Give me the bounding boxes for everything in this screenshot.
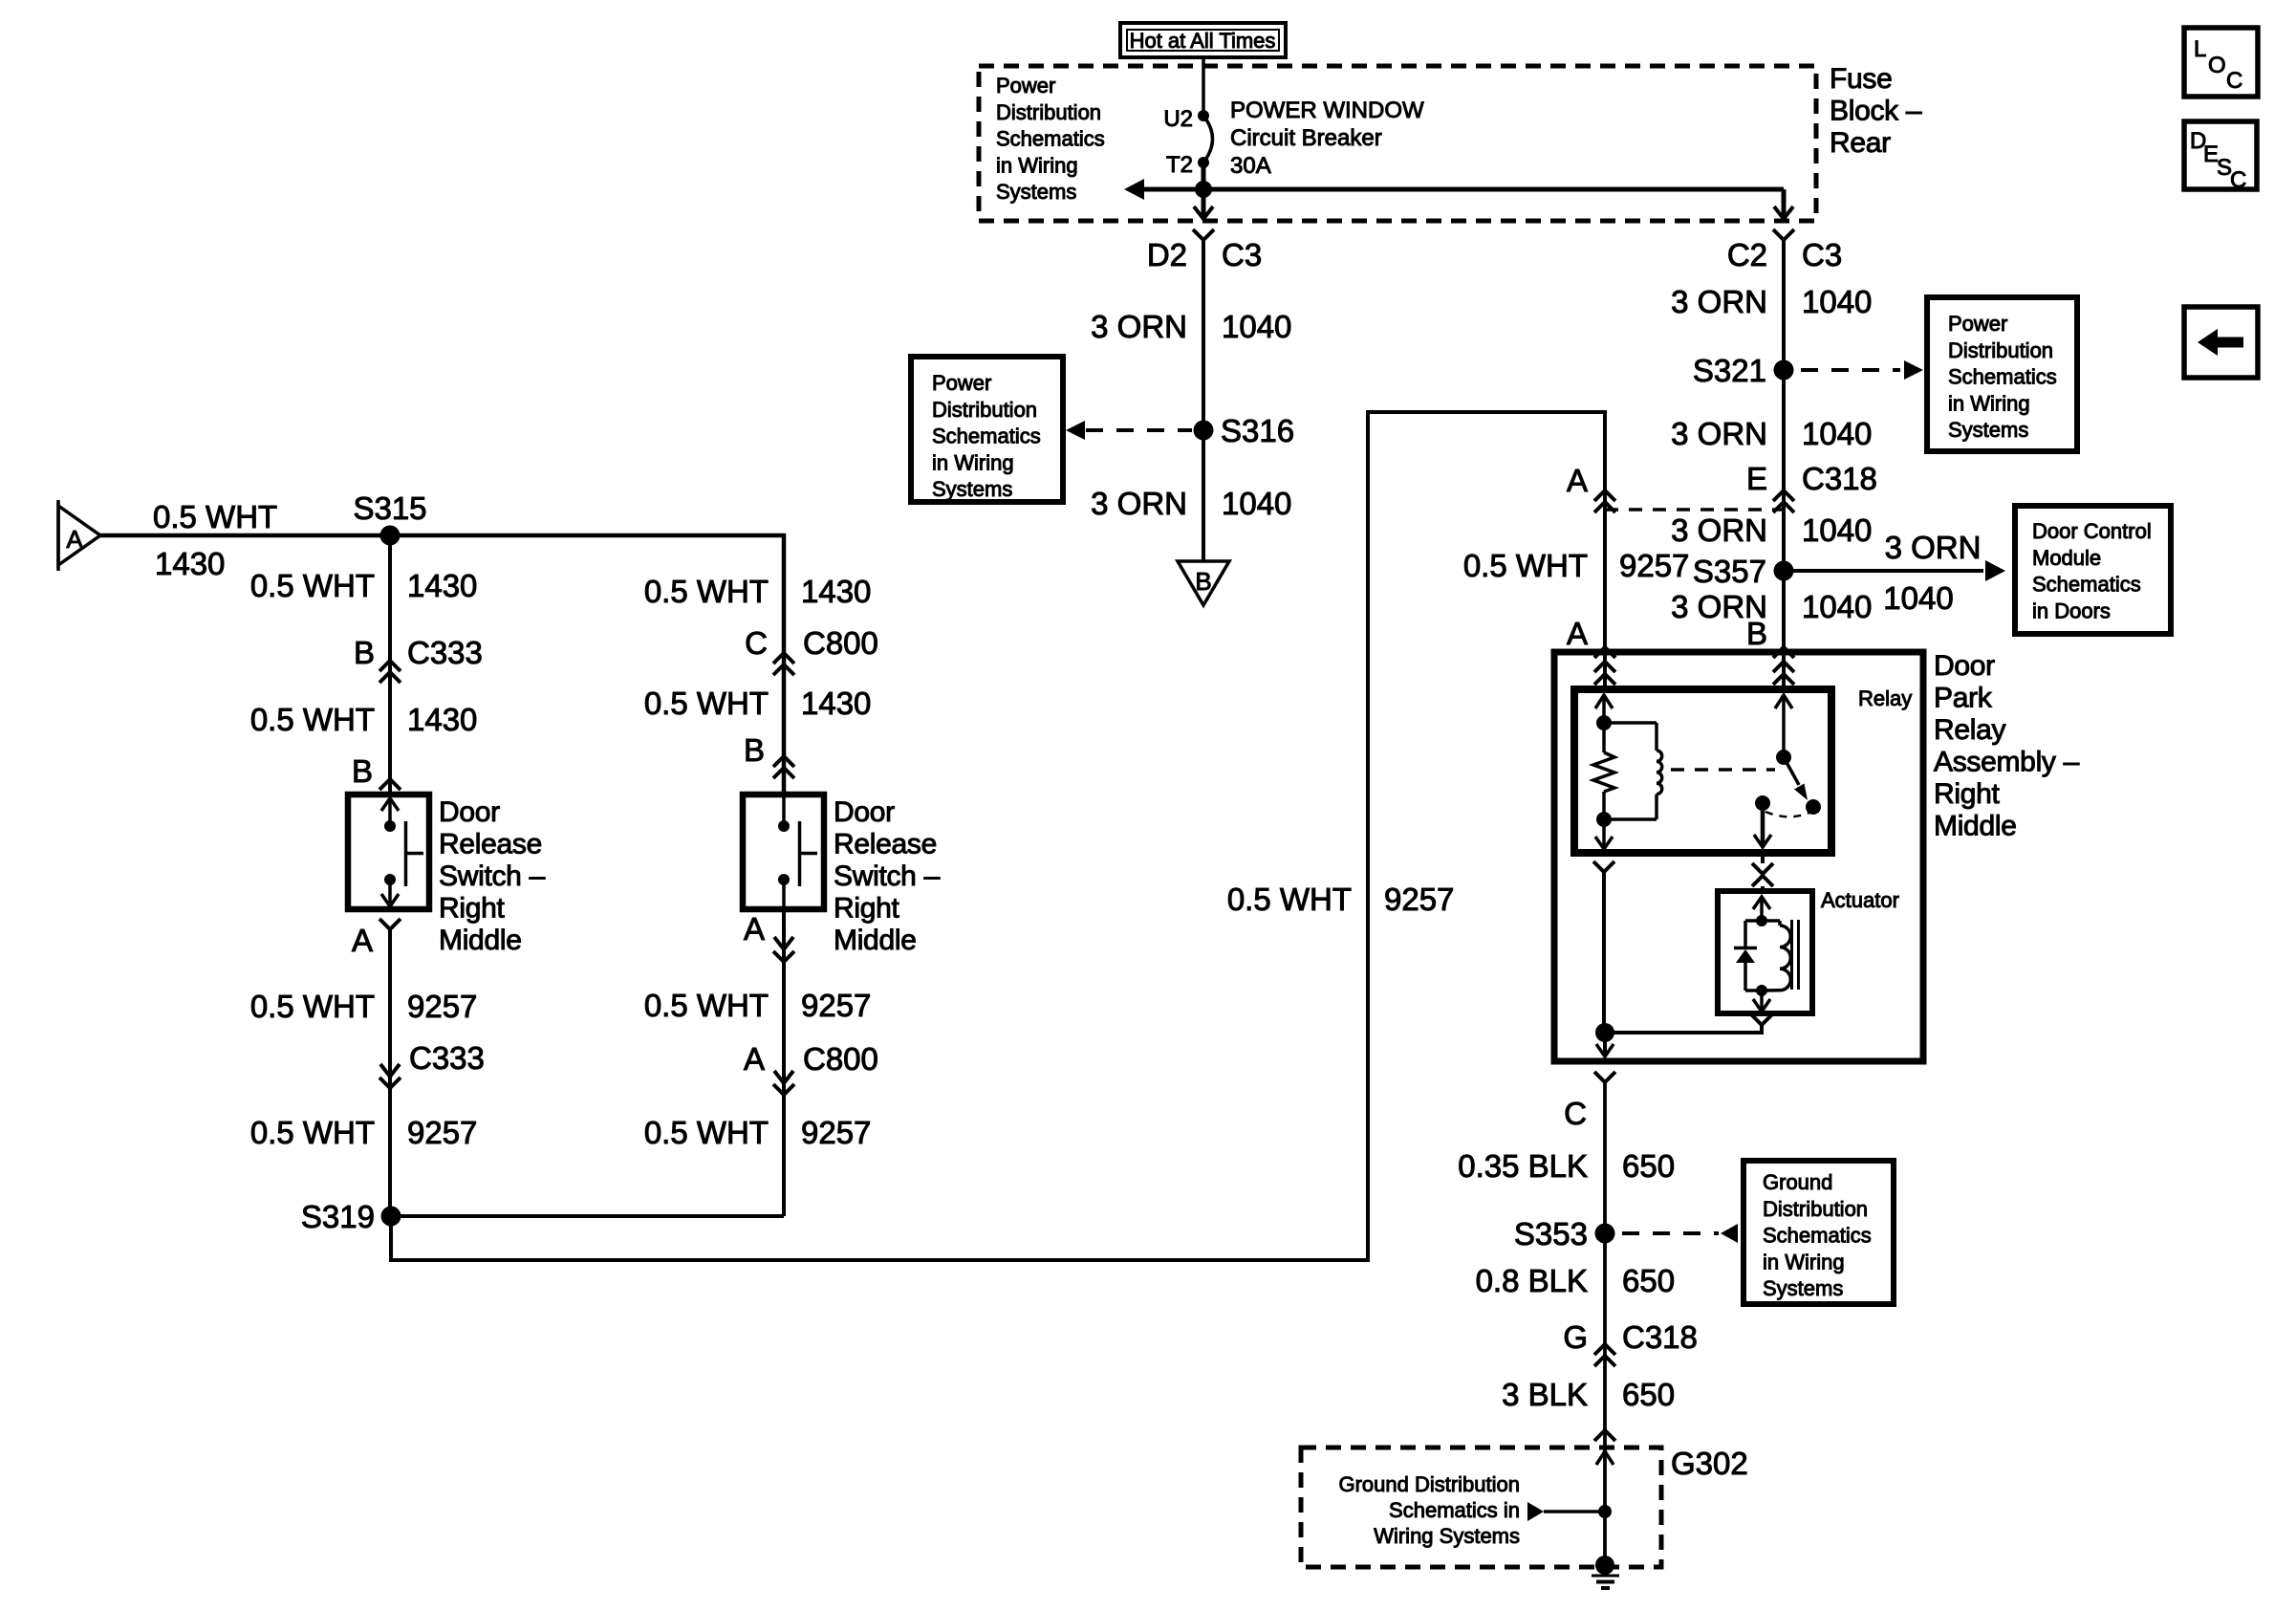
pin label E | C318	[1746, 461, 1877, 496]
svg-text:1040: 1040	[1222, 309, 1291, 344]
actuator core bars	[1792, 920, 1799, 990]
label G302	[1671, 1446, 1748, 1481]
switch pin A arrow+fork (right switch bottom)	[744, 909, 794, 1216]
fuse block label "Fuse Block - Rear"	[1830, 63, 1922, 159]
reference box: Power Distribution Schematics in Wiring Systems (right)	[1927, 297, 2077, 451]
relay dashed actuation link	[1671, 768, 1775, 772]
svg-text:3 ORN: 3 ORN	[1671, 284, 1767, 319]
splice S319	[301, 1199, 401, 1234]
svg-text:G: G	[1563, 1319, 1588, 1355]
label 0.5 WHT | 9257 (riser)	[1227, 882, 1455, 917]
connector chevron at assembly pin A	[1594, 647, 1615, 658]
reference box: Power Distribution Schematics in Wiring Systems (left)	[911, 357, 1063, 502]
off-page connector triangle B	[1178, 561, 1229, 605]
svg-text:POWER WINDOWCircuit Breaker30A: POWER WINDOWCircuit Breaker30A	[1230, 98, 1424, 179]
svg-text:3 ORN: 3 ORN	[1091, 486, 1187, 521]
label 3 ORN | 1040	[1671, 284, 1872, 319]
relay switch common contact	[1755, 795, 1770, 811]
label 3 ORN | 1040 (below S357)	[1671, 589, 1872, 624]
svg-text:9257: 9257	[801, 1115, 871, 1150]
svg-text:0.35 BLK: 0.35 BLK	[1458, 1148, 1588, 1184]
pin label B (relay assembly)	[1746, 616, 1767, 651]
splice S316 with dashed reference arrow	[1066, 413, 1294, 448]
relay switch arm with arrowhead	[1784, 757, 1808, 800]
svg-text:FuseBlock –Rear: FuseBlock –Rear	[1830, 63, 1922, 159]
icon box back-arrow	[2184, 307, 2258, 378]
svg-text:0.5 WHT: 0.5 WHT	[153, 499, 277, 534]
svg-text:B: B	[744, 732, 765, 768]
svg-text:C3: C3	[1802, 237, 1842, 272]
icon box DESC	[2184, 121, 2257, 193]
wire: 0.5 WHT 1430 feed from A through S315 turning down right branch	[100, 535, 784, 795]
svg-text:Actuator: Actuator	[1821, 888, 1899, 912]
svg-text:9257: 9257	[1619, 548, 1689, 583]
ground wire into G302 with arrow	[1596, 1451, 1614, 1465]
pin label A (C318 pin A)	[1567, 463, 1588, 498]
off-page connector triangle A (feed)	[58, 500, 100, 571]
svg-text:DoorParkRelayAssembly –RightMi: DoorParkRelayAssembly –RightMiddle	[1934, 650, 2080, 842]
wire: 3 ORN 1040 from S316 to page connector B	[1202, 430, 1205, 561]
splice S357 with arrow to Door Control Module	[1693, 530, 2005, 616]
svg-text:S357: S357	[1693, 554, 1766, 589]
svg-text:1040: 1040	[1802, 512, 1872, 548]
svg-text:Ground DistributionSchematics: Ground DistributionSchematics inWiring S…	[1338, 1472, 1520, 1548]
ground lead chevron above G302	[1594, 1430, 1615, 1441]
reference box: Door Control Module Schematics in Doors	[2015, 506, 2171, 634]
label 3 ORN | 1040	[1671, 416, 1872, 451]
pin label C2 | C3	[1727, 237, 1842, 272]
circuit breaker U2/T2 POWER WINDOW 30A	[1163, 98, 1424, 179]
assembly pin C fork below box	[1564, 1072, 1615, 1565]
relay switch pivot	[1776, 750, 1791, 765]
label 0.8 BLK | 650	[1476, 1263, 1675, 1298]
svg-text:A: A	[1567, 463, 1588, 498]
label: Door Park Relay Assembly - Right Middle	[1934, 650, 2080, 842]
wire: right branch joins S319 bus	[391, 1214, 784, 1218]
svg-text:C3: C3	[1222, 237, 1262, 272]
svg-text:1430: 1430	[801, 574, 871, 609]
connector C318 pin E double chevron	[1773, 490, 1794, 512]
svg-text:A: A	[1567, 616, 1588, 651]
svg-text:C: C	[1564, 1096, 1587, 1131]
svg-text:9257: 9257	[407, 1115, 477, 1150]
svg-text:C800: C800	[803, 1041, 878, 1077]
junction: G302 tap	[1598, 1505, 1612, 1518]
svg-text:GroundDistributionSchematicsin: GroundDistributionSchematicsin WiringSys…	[1763, 1170, 1872, 1300]
relay coil output arrow to box edge	[1595, 819, 1613, 849]
connector C800 pin C double chevron	[773, 653, 794, 675]
actuator diode	[1734, 921, 1762, 991]
svg-text:C318: C318	[1622, 1319, 1698, 1355]
wire: breaker output bus inside fuse block	[1142, 163, 1784, 189]
pin label C333 (bottom)	[409, 1040, 485, 1076]
connector C333 exit arrow+chevron	[379, 1064, 401, 1088]
switch pin chevrons (right switch top)	[773, 756, 794, 778]
label 0.5 WHT | 1430	[250, 702, 478, 737]
svg-text:B: B	[1746, 616, 1767, 651]
pin label A (relay assembly)	[1567, 616, 1588, 651]
svg-text:0.5 WHT: 0.5 WHT	[644, 686, 769, 721]
svg-text:9257: 9257	[407, 989, 477, 1024]
pin label B (left switch)	[352, 753, 373, 789]
svg-text:C2: C2	[1727, 237, 1767, 272]
svg-text:0.5 WHT: 0.5 WHT	[250, 702, 375, 737]
reference note: Ground Distribution Schematics in Wiring Systems (inside G302)	[1338, 1472, 1520, 1548]
pin label A | C800 (bottom)	[744, 1041, 878, 1077]
actuator node bottom	[1756, 985, 1767, 996]
svg-text:0.5 WHT: 0.5 WHT	[644, 1115, 769, 1150]
svg-text:C: C	[745, 625, 768, 661]
actuator node top	[1756, 915, 1767, 926]
relay resistor	[1593, 723, 1614, 819]
assembly internal connector A (double chevron)	[1594, 652, 1615, 689]
svg-text:650: 650	[1622, 1377, 1675, 1412]
svg-text:S316: S316	[1221, 413, 1294, 448]
svg-text:PowerDistributionSchematicsin: PowerDistributionSchematicsin WiringSyst…	[1948, 312, 2057, 442]
actuator feed arrow	[1753, 897, 1770, 921]
svg-text:3 ORN: 3 ORN	[1671, 416, 1767, 451]
wire: D2 drop leaving fuse block	[1194, 189, 1213, 219]
door park relay assembly: outer box	[1554, 652, 1923, 1061]
svg-text:0.5 WHT: 0.5 WHT	[644, 988, 769, 1023]
svg-text:D2: D2	[1147, 237, 1187, 272]
svg-text:Relay: Relay	[1858, 686, 1912, 710]
svg-text:0.8 BLK: 0.8 BLK	[1476, 1263, 1588, 1298]
in-line connector below relay (X fork)	[1752, 853, 1773, 891]
svg-text:U2: U2	[1163, 106, 1193, 132]
label: Door Release Switch - Right Middle (left)	[439, 796, 546, 956]
svg-text:1040: 1040	[1802, 284, 1872, 319]
svg-text:3 BLK: 3 BLK	[1502, 1377, 1588, 1412]
ground G302 dashed box	[1301, 1448, 1661, 1567]
wire: left branch 0.5 WHT 1430 down to switch	[388, 535, 392, 795]
svg-text:1040: 1040	[1883, 580, 1953, 616]
svg-text:DoorReleaseSwitch –RightMiddle: DoorReleaseSwitch –RightMiddle	[834, 796, 941, 956]
relay box	[1574, 689, 1831, 853]
wire: assembly ground exit with arrow	[1596, 1033, 1614, 1056]
relay switch contact (normally open)	[1806, 799, 1821, 815]
label 3 ORN | 1040	[1091, 486, 1291, 521]
relay switch dashed throw arc	[1765, 812, 1809, 816]
svg-text:C333: C333	[407, 635, 483, 670]
svg-text:1430: 1430	[407, 568, 477, 603]
svg-text:A: A	[352, 923, 373, 958]
svg-text:Door ControlModuleSchematicsin: Door ControlModuleSchematicsin Doors	[2032, 519, 2152, 622]
connector C333 pin B double chevron	[379, 661, 401, 683]
pin label D2 | C3	[1147, 237, 1262, 272]
arrow: bus continues left (power distribution)	[1124, 179, 1144, 200]
label 0.5 WHT | 1430	[250, 568, 478, 603]
reference arrow inside G302	[1527, 1502, 1605, 1521]
wire: 3 ORN 1040 from C2 down through S321, C318 pin E, S357 to assembly pin B	[1782, 240, 1786, 652]
pin label G | C318	[1563, 1319, 1698, 1355]
svg-text:Hot at All Times: Hot at All Times	[1130, 29, 1276, 53]
splice S315	[353, 490, 426, 546]
relay node: coil top	[1596, 715, 1612, 730]
connector C318 pin A double chevron	[1594, 490, 1615, 512]
label 0.35 BLK | 650	[1458, 1148, 1675, 1184]
door release switch left: box	[348, 795, 429, 909]
svg-text:0.5 WHT: 0.5 WHT	[250, 1115, 375, 1150]
svg-text:0.5 WHT: 0.5 WHT	[1227, 882, 1352, 917]
label 3 ORN | 1040	[1091, 309, 1291, 344]
actuator output fork and link to ground bus	[1605, 1014, 1772, 1033]
wire: hot feed from banner into fuse block	[1202, 57, 1205, 115]
wire: 3 ORN 1040 from D2 to S316	[1202, 270, 1205, 430]
label 0.5 WHT | 9257 (right branch to S319)	[644, 1115, 872, 1150]
actuator box	[1718, 891, 1812, 1013]
connector C318 pin G double chevron	[1594, 1344, 1615, 1366]
connector C800 exit arrow+chevron	[773, 1071, 794, 1095]
wire: relay output A-side inside assembly	[1593, 861, 1614, 1033]
label 0.5 WHT / 1430 on feed	[153, 499, 277, 581]
svg-text:S353: S353	[1514, 1216, 1588, 1252]
label 0.5 WHT | 1430 (below C800)	[644, 686, 872, 721]
label 3 BLK | 650	[1502, 1377, 1675, 1412]
label 0.5 WHT | 9257 (to S319)	[250, 1115, 478, 1150]
reference note: Power Distribution Schematics in Wiring Systems (inside fuse block)	[996, 74, 1105, 204]
relay switch: input wire with arrow	[1775, 695, 1792, 757]
assembly internal connector B (double chevron)	[1773, 652, 1794, 689]
dashed connector tie line C318	[1605, 508, 1784, 512]
svg-text:0.5 WHT: 0.5 WHT	[1463, 548, 1588, 583]
svg-text:L: L	[2194, 36, 2206, 62]
wire: C2 drop leaving fuse block	[1774, 189, 1793, 219]
svg-text:B: B	[354, 635, 375, 670]
svg-text:1430: 1430	[155, 546, 225, 581]
connector chevron at assembly pin B	[1773, 647, 1794, 658]
label 3 ORN | 1040 (above S357)	[1671, 512, 1872, 548]
label: Relay	[1858, 686, 1912, 710]
switch pin A fork (left switch bottom)	[352, 919, 401, 1216]
relay coil (inductor)	[1604, 723, 1662, 819]
svg-text:1040: 1040	[1802, 589, 1872, 624]
power feed banner "Hot at All Times"	[1120, 23, 1286, 57]
label: Actuator	[1821, 888, 1899, 912]
svg-text:1430: 1430	[801, 686, 871, 721]
svg-text:PowerDistributionSchematicsin: PowerDistributionSchematicsin WiringSyst…	[932, 371, 1041, 501]
pin label C | C800	[745, 625, 878, 661]
pin label B | C333	[354, 635, 483, 670]
svg-text:PowerDistributionSchematicsin: PowerDistributionSchematicsin WiringSyst…	[996, 74, 1105, 204]
svg-text:0.5 WHT: 0.5 WHT	[250, 568, 375, 603]
reference box: Ground Distribution Schematics in Wiring Systems	[1744, 1161, 1894, 1304]
label 0.5 WHT | 9257	[250, 989, 478, 1024]
svg-text:650: 650	[1622, 1263, 1675, 1298]
junction: breaker output node	[1195, 181, 1212, 198]
fuse block dashed box	[979, 66, 1816, 221]
svg-text:G302: G302	[1671, 1446, 1748, 1481]
label 0.5 WHT | 1430 (right branch)	[644, 574, 872, 609]
svg-text:C333: C333	[409, 1040, 485, 1076]
svg-text:1430: 1430	[407, 702, 477, 737]
label: Door Release Switch - Right Middle (right)	[834, 796, 941, 956]
svg-text:O: O	[2208, 53, 2226, 78]
svg-text:S319: S319	[301, 1199, 375, 1234]
actuator output arrow to box edge	[1753, 991, 1770, 1012]
label 0.5 WHT | 9257 (above assembly)	[1463, 548, 1690, 583]
junction: assembly ground node	[1595, 1023, 1614, 1042]
svg-text:0.5 WHT: 0.5 WHT	[644, 574, 769, 609]
door release switch right: box	[743, 795, 824, 909]
relay node: coil bottom	[1596, 812, 1612, 827]
icon box LOC	[2184, 28, 2258, 97]
svg-text:C800: C800	[803, 625, 878, 661]
svg-text:9257: 9257	[801, 988, 871, 1023]
pin label B (right switch)	[744, 732, 765, 768]
svg-text:A: A	[744, 911, 765, 947]
svg-text:C: C	[2230, 167, 2246, 193]
svg-text:A: A	[744, 1041, 765, 1077]
ground symbol G302	[1592, 1556, 1619, 1588]
connector: fuse block D2 exit fork	[1193, 229, 1214, 270]
svg-text:1040: 1040	[1222, 486, 1291, 521]
relay coil feed wire with arrow	[1595, 695, 1613, 723]
wire: S319 long run 0.5 WHT 9257 up the riser to assembly pin A	[391, 412, 1605, 1260]
svg-text:3 ORN: 3 ORN	[1885, 530, 1982, 565]
splice S353 with dashed reference arrow	[1514, 1216, 1738, 1252]
svg-text:3 ORN: 3 ORN	[1671, 512, 1767, 548]
switch pin chevron (left switch top)	[379, 779, 401, 790]
door release switch right: contacts and actuator	[778, 795, 817, 909]
svg-text:S315: S315	[353, 490, 426, 526]
svg-text:650: 650	[1622, 1148, 1675, 1184]
relay common output arrow to box edge	[1754, 803, 1771, 847]
svg-text:C318: C318	[1802, 461, 1877, 496]
svg-text:1040: 1040	[1802, 416, 1872, 451]
svg-text:0.5 WHT: 0.5 WHT	[250, 989, 375, 1024]
svg-text:B: B	[1195, 567, 1211, 596]
svg-text:S321: S321	[1693, 353, 1766, 388]
svg-text:A: A	[66, 525, 83, 554]
connector: fuse block C2 exit fork	[1773, 229, 1794, 270]
actuator solenoid coil	[1762, 921, 1790, 991]
door release switch left: contacts and actuator	[381, 798, 423, 906]
splice S321 with dashed reference arrow	[1693, 353, 1923, 388]
svg-text:DoorReleaseSwitch –RightMiddle: DoorReleaseSwitch –RightMiddle	[439, 796, 546, 956]
label 0.5 WHT | 9257 (right branch)	[644, 988, 872, 1023]
svg-text:9257: 9257	[1384, 882, 1454, 917]
svg-text:C: C	[2226, 68, 2242, 94]
svg-text:B: B	[352, 753, 373, 789]
svg-text:T2: T2	[1166, 152, 1193, 178]
svg-text:3 ORN: 3 ORN	[1091, 309, 1187, 344]
svg-text:E: E	[1746, 461, 1767, 496]
